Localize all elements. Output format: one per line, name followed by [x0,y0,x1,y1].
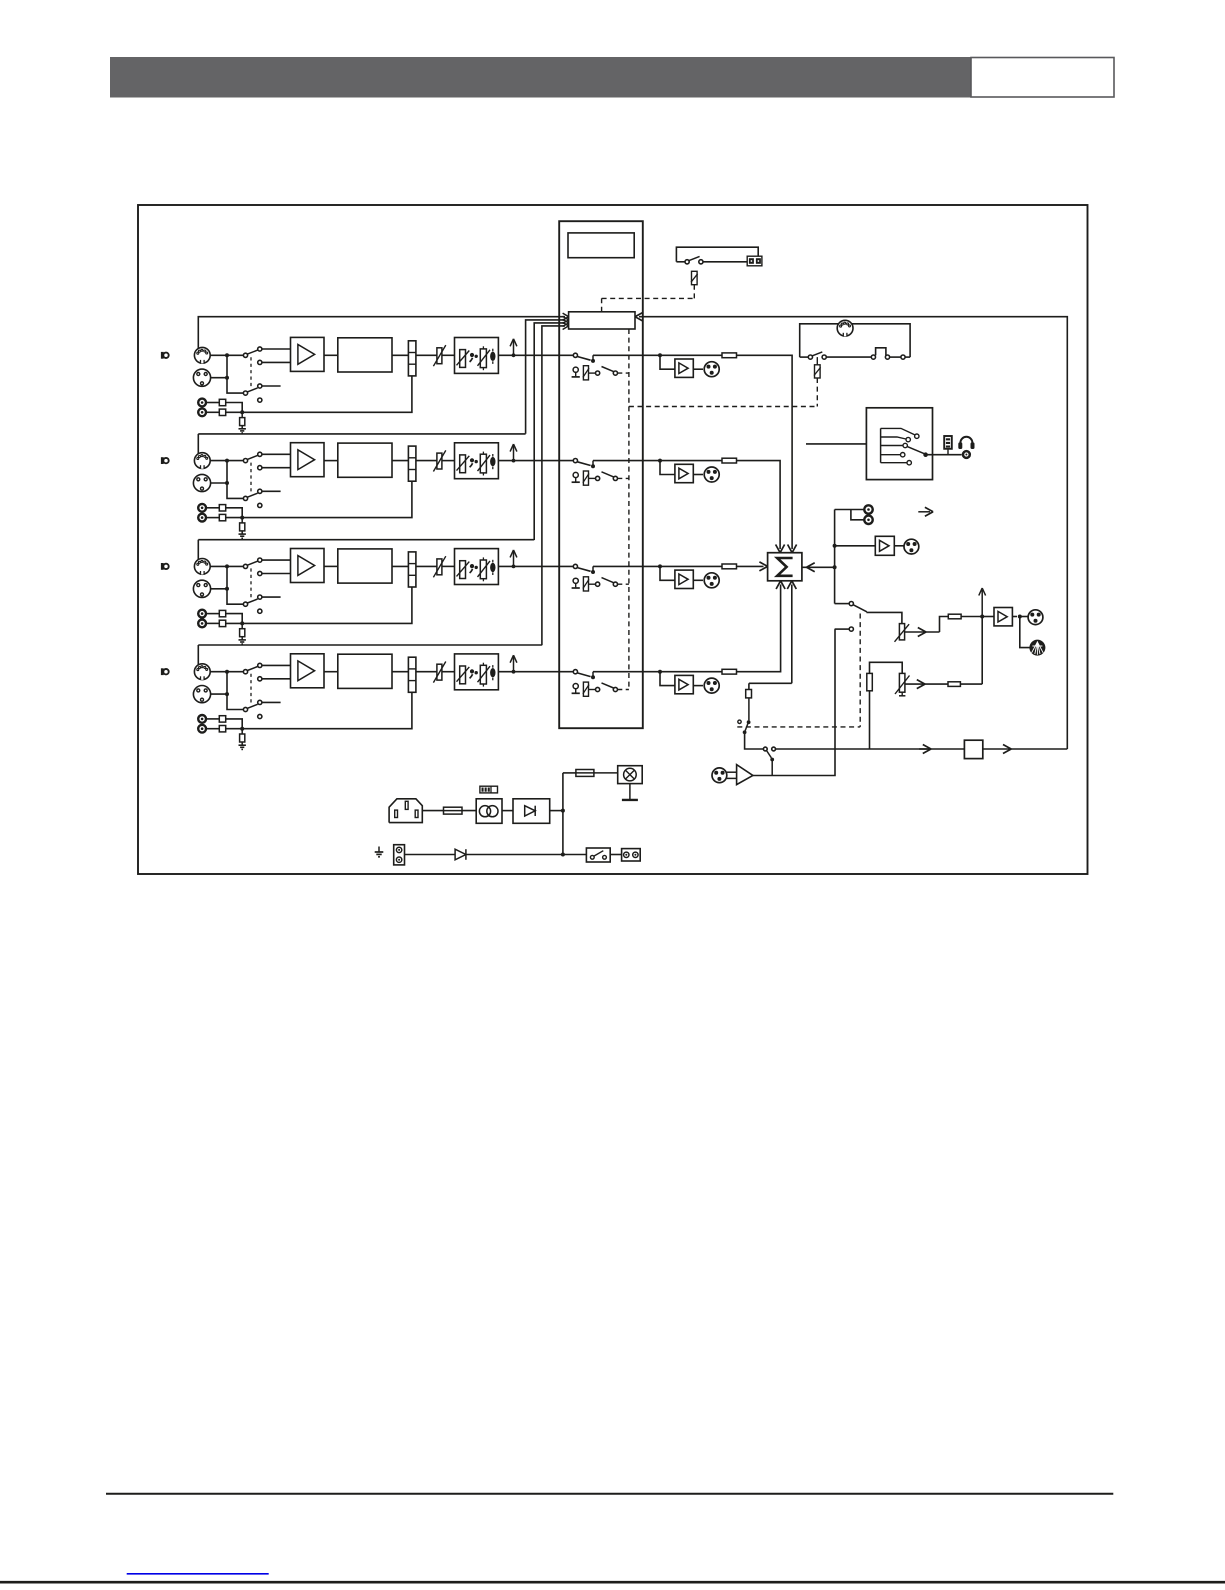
ch1 front-panel mic icon [161,352,164,359]
ch4 wire XLR to junction [211,693,227,695]
master resistor [948,614,961,619]
diagram outer frame [138,205,1088,874]
display block [568,233,634,258]
headphone output wire [926,454,962,456]
ch2 switch contact B1 [258,489,262,493]
phantom relay K1 [692,271,698,284]
dashed vox priority control [859,614,861,727]
ch1 input select switch pole A [243,353,247,357]
monitor mute contact a [808,355,812,359]
ch2 input select switch pole B [243,496,247,500]
ch4 3-way connector block [408,657,416,692]
vox output wire [753,629,835,775]
ch3 wire preamp to processor [324,565,338,567]
second source bridge wire [870,662,903,673]
ch3 XLR mic input [193,580,210,597]
ch3 terminating resistor [240,629,245,637]
ch2 mic preamp U2a [291,443,325,477]
selector common rail [880,428,882,462]
ch1 switch contact A2 [258,360,262,364]
dashed control: relay K2 drop [816,378,818,407]
wire to DIN output [1020,617,1030,648]
ch1 switch contact B2 [258,398,262,402]
master select stub upper [835,603,850,605]
ch2 unbalanced return wire [226,481,412,517]
ch1 wire DIN to switch [210,354,243,356]
headphone source selector box [866,408,932,480]
wire ch4 to sum [737,585,781,672]
ch4 wire DIN to switch [210,671,243,673]
ch3 wire contacts to preamp [262,559,291,561]
lamp ground [629,784,631,800]
ch4 switch contact B1 [258,700,262,704]
priority switch blade [745,724,748,731]
vox preamp triangle [737,765,753,785]
priority switch node [747,720,751,724]
headphone break contact left [871,355,875,359]
ch4 relay blade [602,683,614,688]
ch2 XLR mic input [193,474,210,491]
ch3 line input RCA top [198,610,206,618]
ch4 input select switch pole A [243,670,247,674]
ch1 line input RCA bottom [198,408,206,416]
ch4 RCA pad bottom [219,726,225,732]
pilot lamp branch [563,772,576,774]
selector position 2 [881,437,906,439]
ch3 wire XLR to junction [211,588,227,590]
ch4 unbalanced return wire [226,692,412,728]
ch4 relay contact b [613,687,617,691]
master fader pot [899,624,904,640]
ch2 wire junction down to gain switch [227,461,243,499]
ch3 mute switch contact [573,564,577,568]
master line amp [994,608,1012,626]
ch1 wire contacts to preamp [262,348,291,350]
ch3 ganged switch dashed link [250,568,252,600]
ch2 wire tone to mute switch [498,460,573,462]
second resistor [948,682,960,687]
ch4 line input RCA bottom [198,725,206,733]
ch4 wire mute to output [593,671,737,673]
ch3 switch contact A2 [258,571,262,575]
ch2 processing block [338,443,392,477]
ch1 priority icon [573,367,578,372]
ch1 ground [241,426,243,429]
ch1 mute relay K [583,366,588,380]
ch3 bass pot [460,561,466,579]
monitor mute relay K2 [816,357,818,365]
ch2 wire XLR to junction [211,482,227,484]
wire: ch4 riser to bus [542,326,565,645]
relay out wire [610,854,621,856]
master select stub lower [835,628,850,630]
ch3 bass icon [470,564,474,568]
ch4 node direct-out branch [658,670,662,674]
ch2 mute relay K [583,471,588,485]
ch2 treble icon [490,457,495,466]
ch1 to-bus arrow [512,353,516,357]
ch3 RCA pad top [219,610,225,616]
mains IEC inlet [389,799,422,823]
ch3 mute switch blade [577,568,590,572]
vox insert blade [767,751,772,758]
ch3 mic preamp U3a [291,549,325,583]
vox insert contact a [763,747,767,751]
ch4 dashed control stub [618,689,629,691]
node monitor branch [833,544,837,548]
ch3 gain trim pot [437,559,442,575]
footer link underline [127,1573,269,1575]
DC wire [550,810,563,812]
master level arrow up [981,590,983,617]
master select blade [853,605,867,612]
monitor RCA out top [864,505,872,513]
phantom power switch loop [676,247,758,262]
ch1 line input RCA top [198,399,206,407]
ch2 relay contact a [596,476,600,480]
ch1 input select switch pole B [243,391,247,395]
ch3 mute relay K [583,577,588,591]
ch2 switch contact A2 [258,466,262,470]
DC rail vertical [562,773,564,855]
vox insert contact b [772,747,776,751]
ch2 wire to gain trim [416,460,437,462]
wire: ch2 riser to bus [526,320,565,434]
monitor mute blade [812,352,822,356]
ch3 summing resistor [722,564,737,569]
monitor mute contact b [822,355,826,359]
vox balanced pair [727,771,737,773]
footer rule [106,1493,1113,1495]
ch3 DIN input connector [194,559,210,575]
ch3 dashed control stub [618,583,629,585]
ch1 RCA pad bottom [219,409,225,415]
ch4 input select switch pole B [243,707,247,711]
ch1 treble pot [480,349,486,368]
ch1 wire junction down to gain switch [227,355,243,393]
ch1 bass pot [460,350,466,368]
ch2 summing resistor [722,458,737,463]
ch4 node input junction [225,670,229,674]
wire to master amp [982,616,994,618]
ch3 relay contact a [596,582,600,586]
ch3 RCA pad bottom [219,620,225,626]
wire to rectifier [502,810,513,812]
vox mic XLR input [712,768,727,783]
ch4 to-bus arrow [512,670,516,674]
ch1 processing block [338,338,392,372]
ch4 switch contact A2 [258,677,262,681]
ch2 tone control block [455,443,499,479]
master XLR output [1028,610,1043,625]
phantom-power bus box [569,312,635,329]
ch1 XLR mic input [193,369,210,386]
bus direction arrow 1 [919,748,929,750]
ch1 switch contact A1 [258,347,262,351]
battery backup wire [405,854,587,856]
lamp fuse F2 [576,770,594,777]
ch1 tone control block [455,338,499,374]
ch4 DIN input connector [194,664,210,680]
ch1 mic preamp U1a [291,337,325,371]
ch4 processing block [338,654,392,688]
ch4 riser wire to bus [197,645,199,665]
ch4 wire tone to mute switch [498,671,573,673]
ch2 gain trim pot [437,453,442,469]
wire ch2 to sum [737,461,781,549]
ch2 input select switch pole A [243,459,247,463]
ch3 relay contact b [613,582,617,586]
ch4 tone control block [455,654,499,690]
ch1 mute switch blade [577,357,590,361]
ch2 to-bus arrow [512,459,516,463]
ch3 switch contact B1 [258,595,262,599]
ch2 line input RCA bottom [198,514,206,522]
headphones icon [960,437,972,447]
ch3 to-bus arrow [512,565,516,569]
ch3 relay blade [602,578,614,583]
monitor direction arrow [918,511,930,513]
ch1 node direct-out branch [658,353,662,357]
ch2 wire mute to output [593,460,737,462]
ch2 node input junction [225,459,229,463]
ch4 mute relay K [583,682,588,696]
selector position 5 [881,462,907,464]
ch1 DIN input connector [194,347,210,363]
ch3 ground [241,637,243,640]
wire to master fader [867,612,902,623]
ch4 relay contact a [596,687,600,691]
dashed control: bus to K2 horizontal [629,406,817,408]
monitor amp [875,536,894,555]
node DC [561,809,565,813]
ch2 line input RCA top [198,504,206,512]
ch2 DIN input connector [194,453,210,469]
ch3 line driver amp [675,570,693,588]
ch2 node direct-out branch [658,459,662,463]
second source drop wire [869,691,871,749]
ch1 mute switch contact [573,353,577,357]
ch4 switch contact B2 [258,714,262,718]
wire to output bus [745,732,764,749]
monitor loop contact c [901,355,905,359]
wire: right return line into bus box [639,317,1067,749]
ch1 unbalanced return wire [226,376,412,412]
dashed control: bus box to phantom switch relay [601,298,603,311]
ch1 line driver amp [675,359,693,377]
dashed mute-control bus vertical [628,329,630,690]
master mix vertical [981,617,983,685]
mains wire [422,810,476,812]
ch2 priority icon [573,472,578,477]
mains transformer T1 [476,799,502,824]
bus input arrow ch2 [563,320,569,324]
page bottom rule [0,1581,1225,1584]
selector position 1 [881,428,915,434]
ch4 mute switch contact [573,670,577,674]
header page-number box [971,58,1114,98]
wire transformer to frame right [983,748,1068,750]
ch2 treble pot [480,454,486,473]
phantom switch blade [689,256,700,260]
ch4 bass pot [460,666,466,684]
node sum out [833,565,837,569]
ch4 XLR direct out [704,678,719,693]
second source resistor [867,673,873,690]
aux chain resistor [746,690,752,698]
selector position 4 [881,454,901,456]
bus input arrow ch4 [563,326,569,330]
ch4 wire to gain trim [416,671,437,673]
DIN speaker output plug [1030,640,1045,655]
ch3 treble pot [480,560,486,579]
main output bus wire [776,748,965,750]
monitor DIN speaker connector [837,320,853,336]
bus input arrow ch3 [563,323,569,327]
ch3 wire mute to output [593,565,737,567]
ch1 relay contact b [613,371,617,375]
ch3 unbalanced return wire [226,587,412,623]
ch2 XLR direct out [704,467,719,482]
ch3 XLR direct out [704,573,719,588]
summing amplifier [768,553,802,581]
ch2 line driver amp [675,464,693,482]
monitor loop wiring [800,324,910,357]
phantom switch contact b [699,260,703,264]
ch4 wire preamp to processor [324,671,338,673]
node battery join [561,853,565,857]
ch2 riser wire to bus [197,434,199,454]
ch2 3-way connector block [408,446,416,481]
ch4 switch contact A1 [258,663,262,667]
ch4 mic preamp U4a [291,654,325,688]
second fader pot [899,673,905,692]
ch1 RCA pad top [219,399,225,405]
ch1 XLR direct out [704,362,719,377]
node master out [1018,615,1022,619]
ch2 terminating resistor [240,523,245,531]
pilot lamp box [618,766,643,784]
ch2 wire contacts to preamp [262,453,291,455]
ch2 switch contact A1 [258,452,262,456]
priority contact open [738,720,741,723]
chassis earth [378,847,380,853]
ch1 summing resistor [722,353,737,358]
ch2 relay blade [602,472,614,477]
ch3 wire to gain trim [416,565,437,567]
ch3 front-panel mic icon [161,563,164,570]
ch1 treble icon [490,352,495,361]
ch3 input select switch pole B [243,602,247,606]
rectifier block D1 [513,799,550,824]
ch1 ganged switch dashed link [250,357,252,389]
control/bus tall rectangle [559,221,643,728]
ch3 input select switch pole A [243,564,247,568]
ch1 3-way connector block [408,341,416,376]
backup diode D2 [455,849,466,860]
monitor RCA out bottom [864,516,872,524]
ch4 treble pot [480,665,486,684]
ch1 switch contact B1 [258,384,262,388]
battery terminal block [394,845,405,865]
ch2 mute switch blade [577,462,590,466]
second fader out wire [905,683,948,685]
selector wiper [923,452,928,457]
ch2 RCA pad bottom [219,514,225,520]
ch3 processing block [338,549,392,583]
sum output wire [802,566,835,568]
ch3 priority icon [573,578,578,583]
ch1 wire XLR to junction [211,377,227,379]
master select vertical [834,510,836,604]
ch1 dashed control stub [618,372,629,374]
selector position 3 [881,445,903,447]
ch4 ground [241,742,243,745]
aux terminal block [622,849,641,861]
power relay box [586,848,610,862]
100V output transformer box [964,740,982,758]
ch4 terminating resistor [240,734,245,742]
master fader out wire [905,631,940,633]
voltage selector icon [480,786,498,793]
ch1 riser wire to bus [198,317,565,349]
ch3 wire junction down to gain switch [227,566,243,604]
headphone break contact right [885,355,889,359]
ch4 line driver amp [675,675,693,693]
ch3 riser wire to bus [197,540,199,560]
ch3 3-way connector block [408,552,416,587]
ch2 RCA pad top [219,505,225,511]
ch2 mute switch contact [573,459,577,463]
ch3 wire tone to mute switch [498,565,573,567]
ch3 switch contact A1 [258,558,262,562]
ch1 bass icon [470,353,474,357]
ch2 dashed control stub [618,477,629,479]
selector input wire [806,443,866,445]
ch4 priority icon [573,684,578,689]
ch4 line input RCA top [198,715,206,723]
ch2 switch contact B2 [258,503,262,507]
wire: ch3 riser to bus [534,323,565,540]
ch3 tone control block [455,549,499,585]
ch3 treble icon [490,563,495,572]
ch4 treble icon [490,668,495,677]
ch2 ganged switch dashed link [250,463,252,495]
ch4 bass icon [470,669,474,673]
jack plug icon [947,449,949,455]
ch3 node direct-out branch [658,564,662,568]
monitor XLR out [904,539,919,554]
ch2 bass pot [460,455,466,473]
ch4 XLR mic input [193,686,210,703]
ch1 wire preamp to processor [324,354,338,356]
ch1 terminating resistor [240,418,245,426]
ch4 front-panel mic icon [161,668,164,675]
ch3 node input junction [225,564,229,568]
ch3 line input RCA bottom [198,620,206,628]
ch3 switch contact B2 [258,609,262,613]
bus input arrow ch1 [563,317,569,321]
phantom switch contact a [685,260,689,264]
ch1 wire mute to output [593,354,737,356]
page header grey bar [110,57,971,98]
wire aux chain to sum [791,585,793,684]
wire ch1 to sum [737,355,793,549]
ch2 ground [241,531,243,534]
node master mix [980,615,984,619]
ch2 bass icon [470,458,474,462]
ch2 front-panel mic icon [161,457,164,464]
